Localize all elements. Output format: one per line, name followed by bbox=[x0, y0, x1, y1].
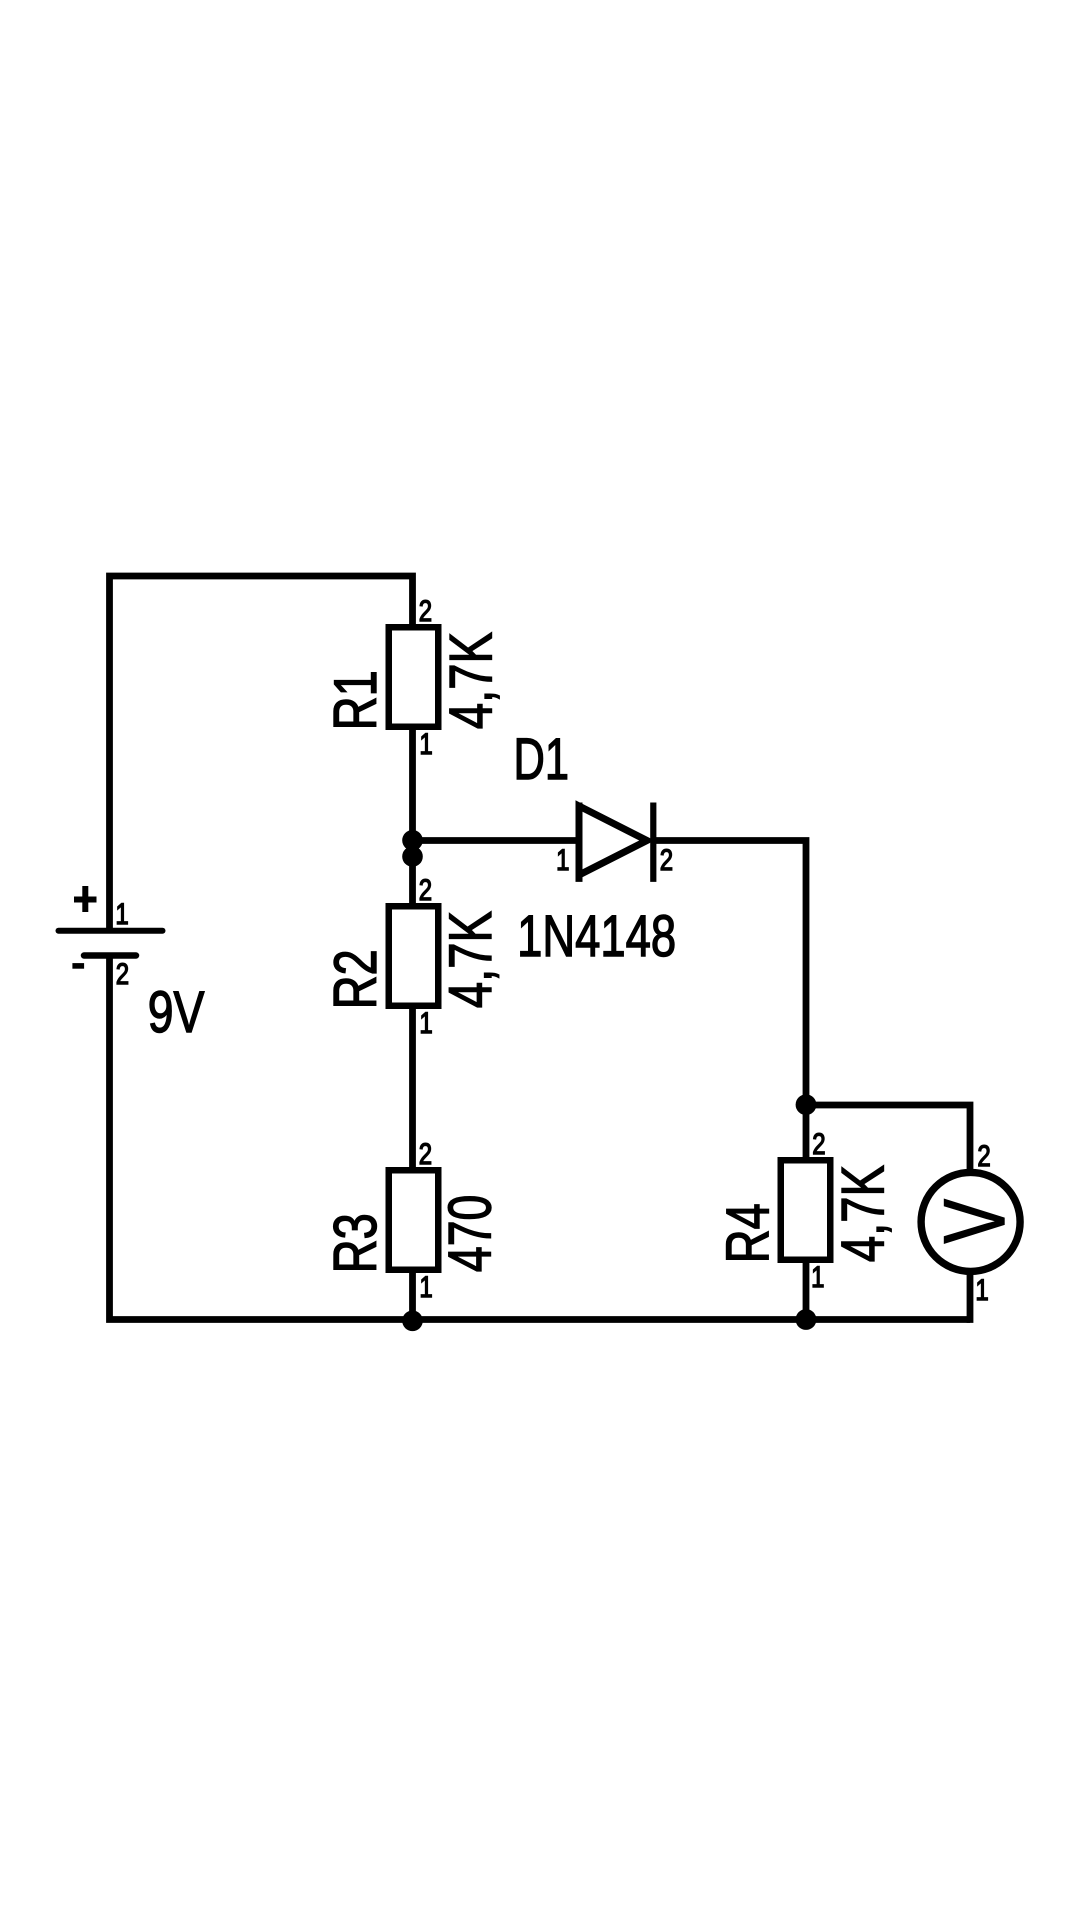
voltmeter body circle bbox=[921, 1172, 1020, 1271]
svg-text:2: 2 bbox=[116, 958, 129, 991]
wire: R2 bottom to R3 top bbox=[409, 1009, 416, 1167]
svg-text:2: 2 bbox=[660, 844, 673, 877]
resistor R1 body bbox=[389, 627, 439, 727]
resistor R3 bbox=[322, 1138, 504, 1304]
resistor R4 body bbox=[781, 1160, 831, 1260]
svg-text:1: 1 bbox=[115, 898, 128, 931]
voltmeter P1 bbox=[921, 1140, 1023, 1307]
resistor R3 body bbox=[389, 1170, 439, 1270]
svg-text:4,7K: 4,7K bbox=[437, 911, 504, 1008]
svg-text:R1: R1 bbox=[322, 670, 389, 730]
plus sign bbox=[74, 886, 97, 912]
wire: voltmeter bottom to bottom rail bbox=[967, 1272, 974, 1323]
svg-text:2: 2 bbox=[812, 1128, 825, 1161]
battery plate negative (short) bbox=[84, 952, 136, 959]
resistor R2 bbox=[322, 874, 504, 1040]
svg-text:D1: D1 bbox=[514, 727, 570, 792]
diode anode bar + triangle outline bbox=[576, 803, 583, 882]
svg-text:1N4148: 1N4148 bbox=[517, 904, 676, 969]
wire: R3 bottom to bottom rail bbox=[409, 1273, 416, 1320]
svg-text:1: 1 bbox=[556, 844, 569, 877]
svg-text:4,7K: 4,7K bbox=[438, 632, 505, 729]
wire: node to voltmeter top bbox=[806, 1105, 970, 1172]
svg-text:470: 470 bbox=[437, 1195, 504, 1272]
battery BT1 bbox=[59, 886, 205, 1045]
wire: R4 bottom to bottom rail bbox=[803, 1263, 810, 1320]
node B junction dot (R4 top / voltmeter branch) bbox=[796, 1094, 817, 1115]
svg-text:1: 1 bbox=[419, 728, 432, 761]
svg-text:9V: 9V bbox=[148, 980, 205, 1045]
svg-text:2: 2 bbox=[977, 1140, 990, 1173]
svg-text:R2: R2 bbox=[322, 949, 389, 1009]
junction dot bottom rail at R4 bbox=[796, 1309, 817, 1330]
svg-text:2: 2 bbox=[419, 1138, 432, 1171]
resistor R4 bbox=[714, 1128, 896, 1294]
wire: R1 bottom to R2 top (through node) bbox=[409, 730, 416, 903]
node A junction dot (lower) bbox=[402, 846, 423, 867]
minus sign bbox=[72, 963, 84, 969]
svg-text:V: V bbox=[927, 1199, 1023, 1244]
svg-text:1: 1 bbox=[811, 1261, 824, 1294]
svg-text:R3: R3 bbox=[322, 1213, 389, 1273]
wire: battery minus down, bottom rail to voltmeter bbox=[110, 956, 971, 1320]
svg-text:2: 2 bbox=[419, 874, 432, 907]
svg-text:1: 1 bbox=[419, 1007, 432, 1040]
svg-text:2: 2 bbox=[419, 595, 432, 628]
node A junction dot (upper) bbox=[402, 830, 423, 851]
wire: node to diode anode bbox=[413, 837, 577, 844]
svg-text:1: 1 bbox=[419, 1271, 432, 1304]
diode D1 1N4148 bbox=[514, 727, 677, 969]
junction dot bottom rail at R3 bbox=[402, 1311, 423, 1332]
resistor R1 bbox=[322, 595, 505, 761]
svg-text:1: 1 bbox=[975, 1274, 988, 1307]
svg-text:4,7K: 4,7K bbox=[829, 1165, 896, 1262]
resistor R2 body bbox=[389, 906, 439, 1006]
wire: battery plus up, top rail, down to R1 bbox=[110, 576, 413, 931]
diode cathode bar bbox=[650, 803, 656, 882]
battery plate positive (long) bbox=[59, 928, 163, 934]
svg-text:R4: R4 bbox=[714, 1203, 781, 1263]
wire: diode cathode right and down to R4 bbox=[653, 841, 806, 1158]
